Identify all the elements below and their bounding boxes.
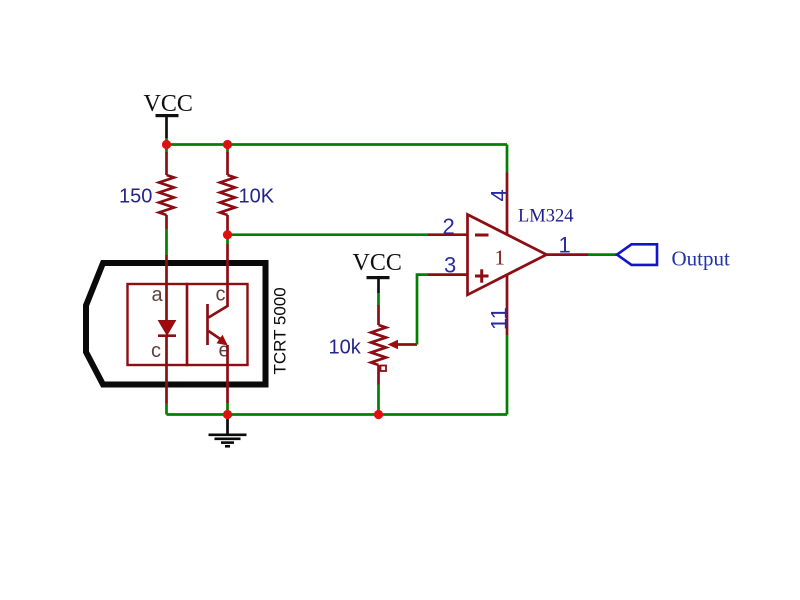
svg-text:2: 2 — [443, 214, 455, 239]
LED anode lead — [165, 255, 168, 321]
svg-text:VCC: VCC — [144, 91, 193, 117]
TCRT5000 sensor outline — [86, 263, 266, 385]
wire pot bottom to node D — [377, 385, 380, 415]
TCRT5000 LED box — [128, 284, 188, 365]
node B junction — [223, 140, 232, 149]
svg-text:1: 1 — [559, 233, 571, 258]
svg-text:3: 3 — [444, 253, 456, 278]
wire node C to op-amp pin 2 — [228, 233, 429, 236]
svg-text:10K: 10K — [239, 186, 275, 208]
wire op-amp output to terminal — [588, 253, 617, 256]
svg-text:LM324: LM324 — [518, 207, 574, 227]
svg-text:Output: Output — [672, 247, 731, 271]
svg-text:1: 1 — [495, 246, 506, 270]
wire VCC2 to pot — [377, 293, 380, 306]
power VCC symbol (middle) — [353, 250, 402, 293]
node D junction — [374, 410, 383, 419]
LED cathode bar — [158, 334, 176, 337]
wire VCC stem to node A — [165, 138, 168, 145]
phototransistor emitter with arrow — [209, 331, 222, 340]
svg-text:c: c — [151, 340, 161, 362]
phototransistor collector lead — [209, 244, 228, 318]
svg-text:TCRT 5000: TCRT 5000 — [271, 287, 290, 374]
svg-text:4: 4 — [487, 189, 512, 201]
wire top rail — [167, 143, 508, 146]
LED diode triangle — [159, 321, 176, 336]
power VCC symbol (top left) — [144, 91, 193, 138]
ground symbol — [209, 415, 247, 447]
wire R1 to TCRT5000 anode pin — [165, 229, 168, 255]
node C junction — [223, 230, 232, 239]
wire pot wiper to op-amp pin 3 — [417, 275, 428, 345]
op-amp U1 LM324 — [428, 173, 588, 336]
wire node A to resistor R1 — [165, 145, 168, 153]
phototransistor emitter lead — [226, 345, 229, 403]
svg-text:150: 150 — [119, 186, 152, 208]
svg-text:VCC: VCC — [353, 250, 402, 276]
svg-text:a: a — [152, 284, 164, 306]
node A junction — [162, 140, 171, 149]
wire node B to resistor R2 — [226, 145, 229, 153]
resistor R2 10K — [220, 152, 235, 235]
wire node C to TCRT5000 collector pin — [226, 235, 229, 244]
wire top rail drop to op-amp pin 4 — [506, 145, 509, 173]
output terminal — [617, 244, 657, 265]
wire emitter to bottom rail — [226, 403, 229, 415]
TCRT5000 phototransistor box — [187, 284, 248, 365]
svg-text:11: 11 — [487, 307, 512, 330]
phototransistor base bar — [206, 304, 209, 345]
wire LED cathode to bottom rail — [165, 404, 168, 415]
LED cathode lead — [165, 336, 168, 404]
wire bottom rail — [167, 413, 508, 416]
wire op-amp pin 11 drop to bottom rail — [506, 335, 509, 415]
potentiometer RV1 10k — [371, 305, 417, 385]
resistor R1 150 — [159, 152, 174, 229]
svg-text:10k: 10k — [329, 337, 362, 359]
svg-text:c: c — [216, 284, 226, 306]
node E junction (ground) — [223, 410, 232, 419]
